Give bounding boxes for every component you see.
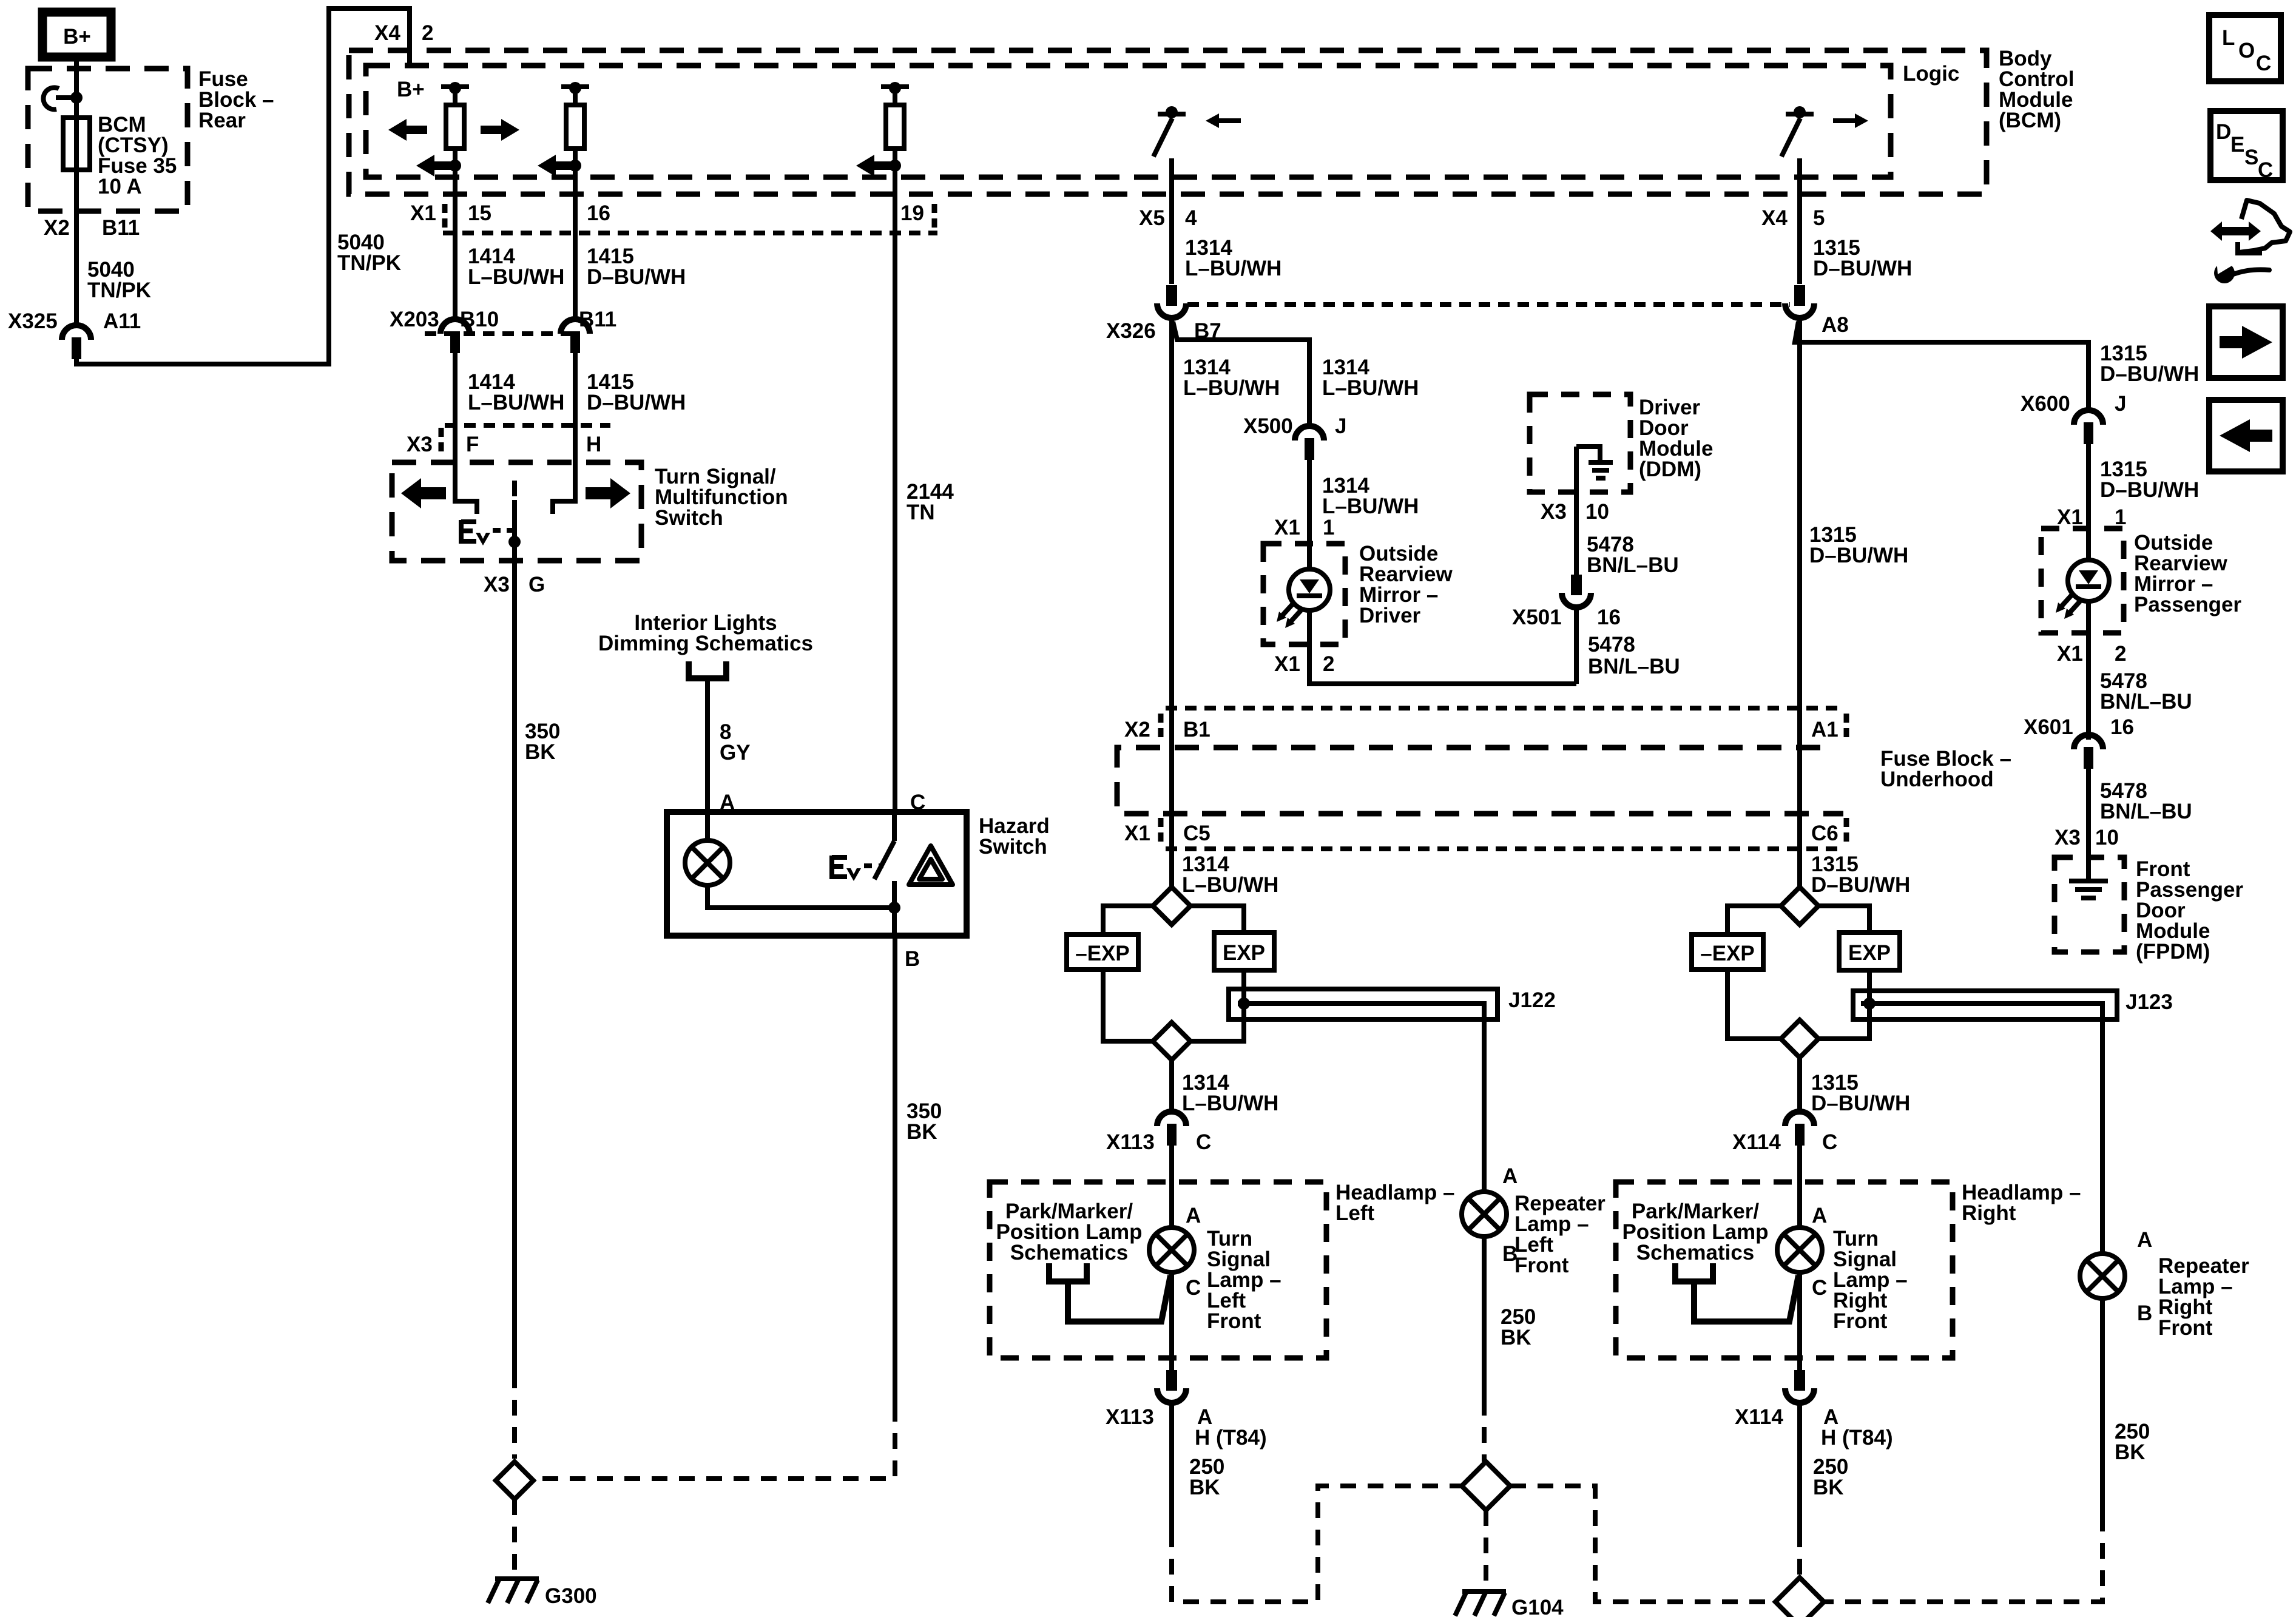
svg-text:J122: J122 (1508, 988, 1556, 1012)
svg-text:BK: BK (1813, 1476, 1844, 1499)
pin labels X4 5 (1761, 206, 1825, 230)
option box -EXP right (1692, 934, 1763, 970)
BCM switch sense right (X4-5) (1781, 106, 1814, 157)
DDM internal ground (1576, 447, 1613, 478)
svg-text:J123: J123 (2125, 990, 2173, 1014)
pin labels X1 15 16 19 (410, 201, 924, 225)
connector X114 upper (1785, 1112, 1814, 1146)
wire label 1415 D-BU/WH (587, 245, 686, 289)
DDM dashed box (1530, 394, 1630, 492)
svg-text:X3: X3 (484, 573, 510, 596)
svg-text:Dimming Schematics: Dimming Schematics (598, 632, 813, 655)
svg-text:C: C (1822, 1130, 1837, 1154)
svg-text:G: G (528, 573, 545, 596)
junction dot R3 out (889, 160, 901, 172)
turn signal lamp right front (1777, 1227, 1822, 1272)
label Outside Rearview Mirror - Driver (1359, 542, 1453, 627)
svg-text:X4: X4 (1761, 206, 1788, 230)
hazard Ev symbol (832, 856, 883, 881)
ground G300 (488, 1579, 539, 1603)
right arrow icon box (2209, 306, 2283, 378)
X1 face tick right (932, 204, 937, 229)
svg-text:X113: X113 (1106, 1405, 1154, 1429)
switch wiper wire and dot (508, 500, 521, 561)
underhood face tick right top (1844, 714, 1849, 741)
X203 connector face (425, 331, 575, 336)
dashed run repeater right to X114 net (1821, 1516, 2102, 1602)
ground G104 (1455, 1592, 1506, 1616)
connector labels X501 16 (1512, 606, 1621, 629)
svg-text:C: C (1812, 1276, 1827, 1300)
pin labels X2 B1 A1 (1124, 718, 1838, 741)
wire B+ down through fuse to X325 (74, 57, 79, 324)
svg-text:16: 16 (2110, 715, 2134, 739)
svg-text:X3: X3 (2055, 826, 2081, 849)
tick and dot resistor 3 (889, 82, 901, 94)
svg-text:EXP: EXP (1848, 941, 1891, 965)
FPDM internal ground (2069, 857, 2108, 898)
label Headlamp - Left (1335, 1181, 1454, 1225)
arrow right pointing at right sense (1833, 113, 1868, 128)
svg-text:GY: GY (720, 741, 751, 765)
wire repeater left down (1482, 1237, 1487, 1400)
svg-text:X3: X3 (407, 433, 433, 456)
label Repeater Lamp - Right Front (2158, 1254, 2249, 1340)
splice diamond G300 net (496, 1462, 533, 1499)
wire label 1315 D-BU/WH below C6 (1811, 852, 1910, 897)
svg-text:X3: X3 (1541, 500, 1567, 524)
svg-text:1: 1 (2115, 505, 2126, 529)
arrow right in switch (586, 478, 630, 508)
hazard switch contact (874, 812, 900, 936)
connector X500 (1295, 426, 1324, 460)
svg-text:D–BU/WH: D–BU/WH (2100, 362, 2199, 386)
svg-text:J: J (1335, 414, 1346, 438)
branch wire to mirror driver (1173, 322, 1309, 425)
label Park/Marker/ Position Lamp Schematics (right) (1622, 1200, 1768, 1264)
svg-text:Underhood: Underhood (1880, 768, 1994, 791)
LOC icon box (2209, 15, 2281, 81)
connector labels X114 A H(T84) (1735, 1405, 1893, 1450)
svg-text:B: B (2137, 1301, 2152, 1325)
label Turn Signal Lamp - Right Front (1833, 1227, 1908, 1333)
svg-text:10 A: 10 A (98, 175, 142, 198)
splice diamond top left (1153, 887, 1190, 925)
svg-text:Switch: Switch (979, 835, 1047, 859)
svg-text:EXP: EXP (1223, 941, 1265, 965)
fuse block underhood dashed module box (1117, 748, 1843, 814)
wire diamond to X114 (1797, 1058, 1802, 1110)
label Outside Rearview Mirror - Passenger (2134, 531, 2241, 616)
svg-text:(DDM): (DDM) (1639, 457, 1701, 481)
wire label 5040 TN/PK (second) (337, 231, 401, 275)
lamp to junction wire (707, 885, 894, 908)
svg-text:B+: B+ (63, 25, 91, 49)
svg-text:2: 2 (422, 21, 433, 45)
svg-text:D–BU/WH: D–BU/WH (2100, 478, 2199, 502)
svg-text:L–BU/WH: L–BU/WH (1182, 873, 1278, 897)
junction dot R2 out (569, 160, 581, 172)
label Body Control Module (BCM) (1999, 47, 2074, 132)
wire label 250 BK (right repeater) (2115, 1420, 2150, 1464)
park/marker bracket and feed (right) (1675, 1263, 1798, 1322)
svg-text:X1: X1 (1274, 652, 1300, 676)
wire X113 ground run (1169, 1405, 1174, 1531)
wire X4-5 down (1797, 158, 1802, 284)
wire label 1414 L-BU/WH (468, 245, 564, 289)
wire 350 BK from hazard B (893, 936, 897, 1406)
svg-text:H (T84): H (T84) (1195, 1426, 1267, 1450)
junction dot R1 out (449, 160, 461, 172)
svg-text:X2: X2 (44, 216, 70, 240)
wire X114 ground run (1797, 1405, 1802, 1531)
label Fuse Block - Rear (198, 67, 274, 132)
wire label 350 BK (525, 720, 560, 764)
dashed run G104 to X114 net (1510, 1486, 1778, 1602)
wire repeater right down (2100, 1298, 2105, 1516)
svg-text:A1: A1 (1811, 718, 1838, 741)
svg-text:F: F (466, 433, 479, 456)
svg-text:TN: TN (907, 501, 935, 524)
label BCM (CTSY) Fuse 35 10 A (98, 113, 177, 198)
wire label 5478 BN/L-BU (2) (1588, 633, 1680, 678)
arrow left at R3 out (856, 155, 895, 177)
svg-text:C: C (1186, 1276, 1201, 1300)
svg-text:15: 15 (468, 201, 491, 225)
splice diamond bottom left (1153, 1022, 1190, 1060)
connector labels X325 A11 (8, 309, 141, 333)
connector labels X203 B10 B11 (390, 308, 616, 331)
svg-text:A: A (2137, 1228, 2152, 1252)
svg-text:5478: 5478 (1588, 633, 1635, 657)
svg-text:X2: X2 (1124, 718, 1150, 741)
wire label 1415 D-BU/WH (2) (587, 370, 686, 414)
connector X113 lower (1157, 1370, 1186, 1403)
svg-text:C6: C6 (1811, 822, 1838, 845)
option box EXP right (1839, 933, 1900, 970)
svg-text:TN/PK: TN/PK (337, 251, 401, 275)
wire label 5478 BN/L-BU (passenger 2) (2100, 779, 2192, 823)
svg-text:D–BU/WH: D–BU/WH (1809, 544, 1908, 567)
wire mirror passenger down (2086, 601, 2091, 740)
connector labels X113 A H(T84) (1106, 1405, 1267, 1450)
repeater lamp right front (2080, 1254, 2125, 1298)
wire mirror to X501 (1309, 610, 1576, 684)
wrench and arrows icon (2210, 200, 2290, 283)
wire below R2 (573, 149, 578, 318)
switch X3 connector face (445, 423, 610, 428)
svg-text:L–BU/WH: L–BU/WH (1183, 376, 1280, 400)
svg-text:L–BU/WH: L–BU/WH (468, 265, 564, 289)
svg-text:X4: X4 (374, 21, 400, 45)
svg-text:L–BU/WH: L–BU/WH (468, 391, 564, 414)
svg-text:L–BU/WH: L–BU/WH (1322, 495, 1419, 518)
svg-text:C5: C5 (1183, 822, 1210, 845)
option box EXP left (1214, 933, 1274, 970)
svg-text:H (T84): H (T84) (1821, 1426, 1893, 1450)
svg-text:X601: X601 (2024, 715, 2073, 739)
connector X203 B10 (441, 319, 470, 353)
svg-text:J: J (2115, 392, 2126, 416)
connector labels X114 C (1732, 1130, 1837, 1154)
splice diamond X114 net (1775, 1578, 1824, 1617)
wire label 1315 D-BU/WH above X114 (1811, 1071, 1910, 1115)
svg-text:G300: G300 (545, 1584, 597, 1608)
svg-text:Switch: Switch (655, 506, 723, 530)
wire label 1314 L-BU/WH below X5 (1185, 236, 1281, 280)
wire B10 down into switch (455, 353, 477, 514)
svg-text:S: S (2244, 146, 2258, 169)
pin labels X3 G (484, 573, 545, 596)
FPDM dashed box (2055, 857, 2124, 952)
connector X601 (2074, 735, 2103, 769)
connector A8 (1785, 285, 1814, 318)
svg-text:X325: X325 (8, 309, 58, 333)
resistor R2 (566, 105, 584, 149)
wire label 1314 L-BU/WH (branch) (1322, 356, 1419, 400)
fuse BCM (CTSY) Fuse 35 10A (63, 118, 90, 170)
svg-text:BK: BK (525, 740, 556, 764)
connector labels X601 16 (2024, 715, 2134, 739)
arrow left at R1 out (416, 155, 455, 177)
J123 bus bar (1853, 970, 2117, 1254)
label Turn Signal Lamp - Left Front (1207, 1227, 1281, 1333)
pin labels X5 4 (1139, 206, 1197, 230)
flasher output 1 (left turn front) (416, 82, 469, 318)
branch wires to EXP options right (1727, 906, 1869, 1039)
wire DDM X3-10 down (1574, 447, 1579, 575)
wire label 1314 L-BU/WH above X113 (1182, 1071, 1278, 1115)
hazard warning triangle (909, 846, 953, 885)
svg-text:L–BU/WH: L–BU/WH (1185, 257, 1281, 280)
switch wiper symbol Ev (461, 520, 512, 545)
svg-text:B11: B11 (102, 216, 140, 240)
svg-text:5: 5 (1813, 206, 1825, 230)
label Driver Door Module (DDM) (1639, 396, 1713, 481)
svg-text:X1: X1 (1274, 516, 1300, 539)
svg-text:BK: BK (1189, 1476, 1220, 1499)
dashed run X114 to splice (1797, 1531, 1802, 1582)
svg-text:10: 10 (2095, 826, 2119, 849)
splice diamond bottom right (1781, 1020, 1818, 1058)
wire label 8 GY (720, 720, 751, 765)
label Headlamp - Right (1962, 1181, 2081, 1225)
svg-text:G104: G104 (1511, 1596, 1564, 1617)
wire X600 to mirror (2086, 444, 2091, 560)
svg-text:Logic: Logic (1903, 62, 1959, 86)
svg-text:X501: X501 (1512, 606, 1562, 629)
underhood bottom connector face (1166, 846, 1838, 851)
connector X501 (1562, 575, 1591, 607)
wire label 1314 L-BU/WH (3) (1322, 474, 1419, 518)
svg-text:2: 2 (2115, 642, 2126, 666)
wire label 250 BK (left repeater) (1501, 1305, 1536, 1349)
splice diamond top right (1781, 887, 1818, 925)
wire X113 to lamp (1169, 1146, 1174, 1227)
svg-text:Front: Front (1514, 1254, 1569, 1277)
svg-text:C: C (2256, 52, 2271, 75)
wire label 250 BK (left lamp) (1189, 1455, 1224, 1499)
svg-text:BN/L–BU: BN/L–BU (1588, 655, 1680, 678)
svg-text:BK: BK (1501, 1326, 1531, 1349)
svg-text:16: 16 (587, 201, 610, 225)
X3 face tick (439, 428, 444, 454)
svg-text:2: 2 (1323, 652, 1334, 676)
label Hazard Switch (979, 814, 1050, 859)
svg-text:Schematics: Schematics (1636, 1241, 1755, 1264)
arrow left of R1 (388, 119, 427, 141)
off-page bracket interior lights (689, 661, 726, 678)
fuse block rear dashed box (28, 69, 187, 211)
wire diamond to X113 (1169, 1060, 1174, 1110)
repeater lamp left front (1462, 1192, 1507, 1237)
svg-text:A8: A8 (1822, 313, 1849, 337)
wire label 5478 BN/L-BU (passenger) (2100, 669, 2192, 714)
svg-text:Front: Front (2158, 1316, 2213, 1340)
pin labels X2 B11 (44, 216, 140, 240)
svg-text:H: H (586, 433, 601, 456)
svg-text:O: O (2238, 39, 2255, 62)
wire down from X326 to underhood fuse block (1169, 320, 1174, 887)
wire B11 down into switch (553, 353, 575, 514)
svg-text:X500: X500 (1243, 414, 1293, 438)
svg-text:C: C (1196, 1130, 1211, 1154)
wire lamp down to X114 lower (1797, 1272, 1802, 1370)
BCM X1 connector face (443, 231, 937, 235)
wire label 1315 D-BU/WH below X4 (1813, 236, 1912, 280)
svg-text:X1: X1 (1124, 822, 1150, 845)
wire X500 to mirror (1307, 460, 1312, 569)
svg-text:Schematics: Schematics (1010, 1241, 1129, 1264)
svg-text:B: B (905, 947, 920, 971)
svg-text:E: E (2230, 133, 2244, 157)
svg-text:BK: BK (907, 1120, 937, 1144)
svg-text:L–BU/WH: L–BU/WH (1322, 376, 1419, 400)
connector labels X500 J (1243, 414, 1346, 438)
park/marker bracket and feed (1049, 1263, 1170, 1322)
connector X203 B11 (561, 319, 590, 353)
pin labels X1 1 (driver mirror) (1274, 516, 1334, 539)
outside rearview mirror passenger dashed box (2041, 528, 2124, 633)
X1 face tick left (442, 204, 448, 229)
BCM logic inner dashed box (366, 66, 1891, 177)
B+ battery terminal box (42, 12, 111, 57)
branch wire to mirror passenger (1795, 322, 2088, 409)
wire label 1315 D-BU/WH (4) (2100, 457, 2199, 502)
pin labels X3 10 (FPDM) (2055, 826, 2119, 849)
svg-text:A: A (1812, 1204, 1827, 1227)
svg-text:X113: X113 (1106, 1130, 1155, 1154)
svg-text:B+: B+ (397, 78, 425, 101)
svg-text:L: L (2222, 26, 2235, 50)
pin labels X4 2 (374, 21, 433, 45)
svg-text:X114: X114 (1732, 1130, 1781, 1154)
wire label 1314 L-BU/WH (straight) (1183, 356, 1280, 400)
underhood face tick right bottom (1844, 818, 1849, 846)
hazard switch box (667, 812, 967, 936)
svg-text:B: B (1502, 1242, 1518, 1266)
turn signal / multifunction switch dashed box (392, 462, 641, 561)
dashed run repeater to G104 (1482, 1400, 1487, 1462)
fuse clip hook (43, 87, 74, 109)
dashed ground run from switch G (512, 1372, 517, 1459)
svg-text:16: 16 (1597, 606, 1621, 629)
dashed G104 stub (1484, 1510, 1488, 1586)
label Interior Lights Dimming Schematics (598, 611, 813, 655)
wire X501 down to mirror return (1574, 609, 1579, 684)
option box -EXP left (1067, 934, 1138, 970)
headlamp right dashed box (1616, 1182, 1953, 1358)
connector X326 B7 (1157, 285, 1186, 318)
ground wire 350 BK from switch (512, 561, 517, 1372)
svg-text:X326: X326 (1106, 319, 1156, 343)
svg-text:Front: Front (1833, 1309, 1888, 1333)
svg-text:D–BU/WH: D–BU/WH (1811, 1092, 1910, 1115)
tick and dot resistor 1 (449, 82, 461, 94)
connector X600 (2074, 410, 2103, 444)
LED turn indicator driver mirror (1277, 569, 1330, 628)
label Turn Signal/ Multifunction Switch (655, 465, 788, 530)
headlamp left dashed box (990, 1182, 1326, 1358)
wire label 1315 D-BU/WH (branch) (2100, 342, 2199, 386)
svg-text:Rear: Rear (198, 109, 246, 132)
svg-text:X1: X1 (2057, 642, 2083, 666)
DESC icon box (2210, 111, 2283, 182)
flasher output 2 (right turn front) (538, 82, 589, 318)
wire label 250 BK (right lamp) (1813, 1455, 1848, 1499)
svg-text:X5: X5 (1139, 206, 1165, 230)
wire 8 GY down to hazard (705, 678, 710, 841)
junction dot at fuse top (70, 92, 83, 104)
pin labels X3 10 (DDM) (1541, 500, 1609, 524)
arrow left in switch (401, 478, 446, 508)
svg-text:BK: BK (2115, 1440, 2146, 1464)
label Repeater Lamp - Left Front (1514, 1192, 1606, 1277)
svg-text:Right: Right (1962, 1201, 2016, 1225)
wire label 1414 L-BU/WH (2) (468, 370, 564, 414)
svg-text:–EXP: –EXP (1700, 942, 1755, 965)
svg-text:A11: A11 (103, 309, 141, 333)
svg-text:BN/L–BU: BN/L–BU (1587, 553, 1679, 577)
resistor R1 (446, 105, 464, 149)
wire label 5478 BN/L-BU (1587, 533, 1679, 577)
svg-text:(BCM): (BCM) (1999, 109, 2061, 132)
BCM outer dashed box (349, 50, 1987, 194)
dashed ground run from hazard to G300 splice (536, 1406, 895, 1479)
wire X114 to lamp (1797, 1146, 1802, 1227)
svg-text:D–BU/WH: D–BU/WH (1811, 873, 1910, 897)
turn signal lamp left front (1149, 1227, 1194, 1272)
svg-text:10: 10 (1585, 500, 1609, 524)
svg-text:TN/PK: TN/PK (87, 279, 151, 302)
wire below R1 (453, 149, 458, 318)
svg-text:L–BU/WH: L–BU/WH (1182, 1092, 1278, 1115)
wire below R3 down to hazard switch (893, 149, 897, 812)
svg-text:X1: X1 (410, 201, 436, 225)
underhood face tick left top (1158, 714, 1164, 741)
connector labels X326 B7 (1106, 319, 1221, 343)
dashed ground run X113 to G104 net (1172, 1486, 1462, 1602)
wire lamp down to X113 lower (1169, 1272, 1174, 1370)
wire label 1315 D-BU/WH (straight) (1809, 523, 1908, 567)
svg-text:Left: Left (1335, 1201, 1375, 1225)
svg-text:Front: Front (1207, 1309, 1261, 1333)
dashed to ground G300 (512, 1499, 517, 1578)
svg-text:4: 4 (1185, 206, 1197, 230)
left arrow icon box (2209, 400, 2283, 471)
svg-text:X203: X203 (390, 308, 439, 331)
svg-text:X114: X114 (1735, 1405, 1783, 1429)
